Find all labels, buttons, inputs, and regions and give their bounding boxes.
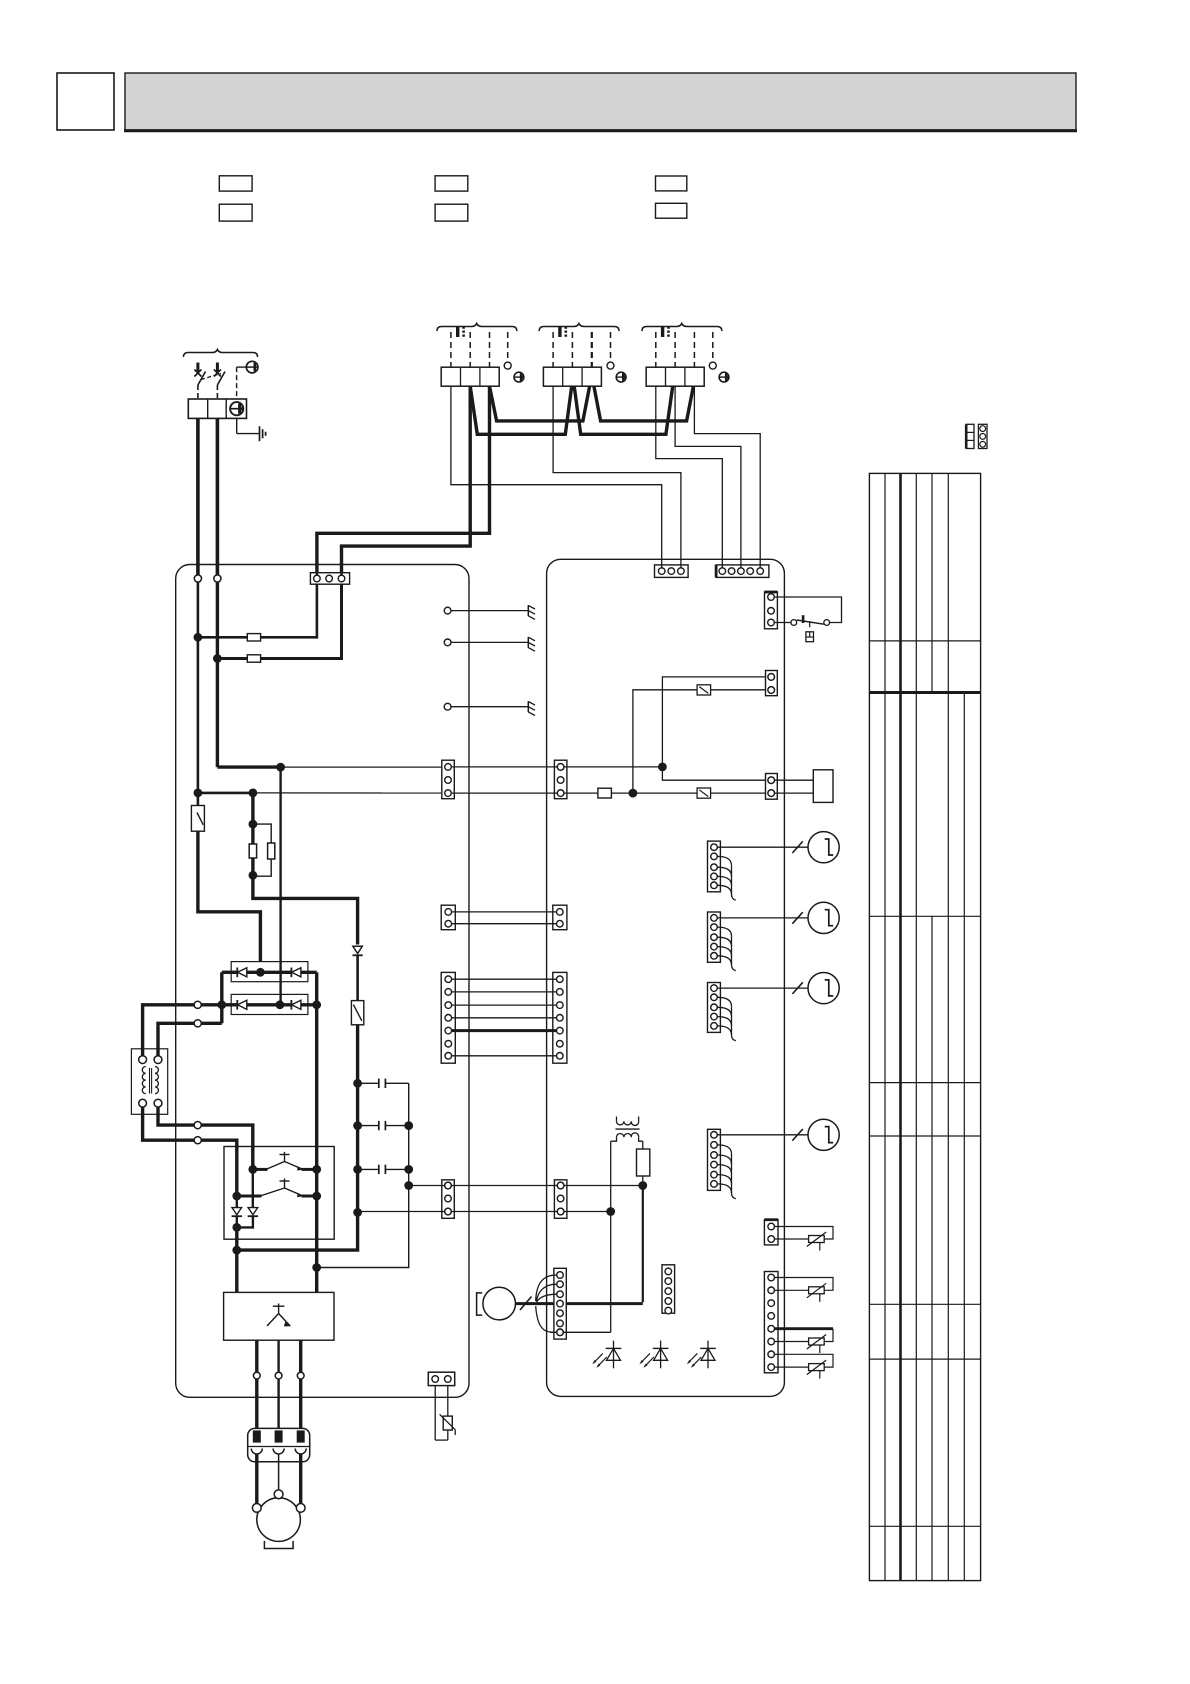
wire vane motor group B bundle xyxy=(717,927,735,971)
fan motor bracket xyxy=(477,1293,483,1315)
power terminal block TB1 xyxy=(188,399,246,418)
compressor socket arc W xyxy=(295,1449,306,1455)
transistor symbol in gate module xyxy=(267,1304,290,1327)
resistor R1 xyxy=(249,844,256,858)
wire L row to node2 xyxy=(198,792,253,795)
indoor unit group 2 brace xyxy=(539,324,619,332)
wire pair3 row3 xyxy=(452,1004,557,1006)
node inverter N xyxy=(312,1263,321,1272)
motor MV vane motor group B xyxy=(808,902,839,933)
motor MV vane motor group A xyxy=(808,832,839,863)
reactor terminal BR xyxy=(154,1099,162,1107)
thermistor TH2 xyxy=(807,1283,826,1302)
power source brace xyxy=(184,350,258,358)
wire power N to board xyxy=(216,418,220,575)
connector pair3 right 7pin xyxy=(553,972,567,1063)
wire thermistor TH3 loop thick feed xyxy=(775,1329,834,1342)
connector CN21S4 xyxy=(766,671,778,696)
node cap2 right xyxy=(404,1121,413,1130)
connector CN-TH1 2pin xyxy=(764,1220,778,1245)
node L-fuse junction xyxy=(194,633,203,642)
wire 21S4 feed vertical xyxy=(662,677,768,780)
node diode common xyxy=(232,1223,241,1232)
node resistor bottom right board xyxy=(638,1181,647,1190)
indoor unit group 1 dashed leads xyxy=(451,332,508,367)
connector vane motor group D xyxy=(708,1129,721,1190)
wire shield 1 xyxy=(451,610,528,612)
connector 63H 3pin xyxy=(765,592,778,629)
node cap2 left xyxy=(353,1121,362,1130)
pin circles over wires pair4 xyxy=(445,1182,564,1215)
group 2 wiring-type marks xyxy=(560,327,566,338)
reactor box xyxy=(131,1049,167,1115)
wire F2 to strip xyxy=(261,584,342,658)
mini connector block left xyxy=(966,424,974,448)
LED D62 xyxy=(639,1341,668,1369)
wire Q2 left to diode Db xyxy=(236,1196,238,1207)
wire relay to CNCH xyxy=(711,792,768,794)
shield pin circle 2 xyxy=(444,639,451,646)
wire bridge right down xyxy=(315,972,318,1005)
fuse F3 on board xyxy=(598,788,612,798)
wire group1 N to strip xyxy=(317,386,490,573)
reactor winding right xyxy=(155,1067,158,1094)
wire pair1 pin1 across xyxy=(451,766,662,768)
wire vane motor group B feed xyxy=(717,917,808,919)
connector pin on W2 xyxy=(194,1020,201,1027)
transistor Q1 xyxy=(253,1152,317,1171)
wire pair4 row1 xyxy=(409,1185,643,1187)
connector pin on W1 xyxy=(194,1001,201,1008)
wire pair1 pin3 across to fuse xyxy=(451,792,598,794)
reactor core lines xyxy=(150,1068,152,1094)
node transformer left xyxy=(606,1207,615,1216)
wire module minus rail xyxy=(235,1227,238,1292)
capacitor C3 xyxy=(358,1165,409,1174)
connector pair2 right 2pin xyxy=(553,905,567,930)
connector CNS 3pin xyxy=(655,565,689,578)
wire group1 S1 to CNS xyxy=(451,386,662,565)
node CN row1 xyxy=(276,763,285,772)
title small box xyxy=(57,73,114,130)
circuit breaker pole 1 xyxy=(194,363,205,400)
thermistor connector CN-TH xyxy=(428,1372,454,1385)
wire R1 bottom xyxy=(251,858,254,875)
legend box 1a xyxy=(219,176,252,191)
resistor R2 xyxy=(268,843,275,859)
thermistor TH outdoor xyxy=(440,1414,456,1435)
wire group3 S3 to CNS2 xyxy=(694,386,760,565)
board inlet pin L xyxy=(194,575,201,582)
wire pair4 row3 xyxy=(358,1211,611,1213)
wire thermistor loop xyxy=(435,1386,448,1441)
title banner bar xyxy=(124,73,1077,131)
wire group2 S1 to CNS xyxy=(553,386,681,565)
capacitor C2 xyxy=(358,1121,409,1130)
mini connector block right with pins xyxy=(978,424,987,448)
connector pin on W3 xyxy=(194,1137,201,1144)
wire link group2-group3 line S3 xyxy=(594,386,694,421)
wire link group1-group2 line S2 xyxy=(470,386,572,434)
motor pin right xyxy=(296,1504,305,1513)
group 2 earth symbol xyxy=(616,372,626,382)
wire reactor TR to bridge W2 xyxy=(158,1023,222,1055)
pin circle phase U xyxy=(253,1372,260,1379)
thermistor TH3 xyxy=(807,1335,826,1354)
wire L below 26C to rectifier xyxy=(198,831,261,972)
group 1 open pin circle xyxy=(504,362,511,369)
connector CNF 7pin xyxy=(554,1268,566,1339)
wire R2 bottom xyxy=(253,859,271,876)
thermistor TH1 xyxy=(807,1232,826,1251)
wire socket U to motor xyxy=(255,1454,258,1504)
wire node2 down to resistors xyxy=(251,793,254,844)
circuit breaker pole 2 xyxy=(214,363,225,400)
pin circle phase V xyxy=(275,1372,282,1379)
wire vane motor group D feed xyxy=(717,1134,808,1136)
plug slash vane motor group B xyxy=(792,912,802,924)
wire N bus vertical xyxy=(216,582,219,767)
node cap3 left xyxy=(353,1165,362,1174)
relay contact 21S4 xyxy=(697,685,711,695)
compressor terminal pin U xyxy=(253,1430,261,1442)
wire N to junction row xyxy=(217,765,280,768)
node Q2 left xyxy=(232,1192,241,1201)
legend box 2b xyxy=(435,204,468,221)
group 1 earth symbol xyxy=(514,372,524,382)
motor pin left xyxy=(252,1504,261,1513)
wire bridge lower row xyxy=(222,1003,317,1006)
node relay feed xyxy=(629,789,638,798)
motor MV vane motor group D xyxy=(808,1119,839,1150)
connector CNS2 5pin xyxy=(716,565,769,578)
shield pin circle 3 xyxy=(444,703,451,710)
compressor motor MC xyxy=(257,1498,301,1542)
wire stubs into CNS pins xyxy=(662,565,761,568)
wire link group1-group2 line S3 xyxy=(490,386,590,421)
compressor terminal pin W xyxy=(297,1430,305,1442)
connector vane motor group B xyxy=(708,912,721,962)
capacitor C1 xyxy=(358,1079,409,1088)
wire node to CH relay xyxy=(633,792,697,794)
wire cap right bus xyxy=(317,1083,409,1267)
diode bridge lower right xyxy=(291,1000,301,1010)
crankcase heater CH box xyxy=(813,770,833,803)
wire pair3 row2 xyxy=(452,991,557,993)
breaker linkage dashed xyxy=(201,374,221,380)
wire module right rail xyxy=(315,1005,318,1293)
legend box 2a xyxy=(435,176,468,191)
connector pair3 left 7pin xyxy=(441,972,455,1063)
motor mount bracket xyxy=(264,1541,293,1549)
chassis symbol 3 xyxy=(528,701,535,715)
wire pair2 row2 xyxy=(452,923,557,925)
wire compressor phase U xyxy=(255,1340,258,1428)
LED D63 xyxy=(687,1341,716,1369)
wire Q1 left to diode Da xyxy=(252,1169,254,1207)
wire vane motor group D bundle xyxy=(717,1145,735,1199)
wire thermistor TH1 loop xyxy=(775,1227,834,1240)
reactor winding left xyxy=(142,1067,145,1094)
wire vane motor group C bundle xyxy=(717,997,735,1040)
wire reactor BL to module W3 xyxy=(143,1107,237,1196)
connector CN-TH2 8pin xyxy=(764,1272,778,1373)
board inlet pin N xyxy=(214,575,221,582)
node N-fuse junction xyxy=(213,654,222,663)
fan line plug slash xyxy=(520,1297,532,1311)
chassis symbol 1 xyxy=(528,605,535,619)
thermistor TH4 xyxy=(807,1360,826,1379)
wire node2 to CNL3a pin3 xyxy=(253,792,448,794)
LED D61 xyxy=(592,1341,621,1369)
shield pin circle 1 xyxy=(444,607,451,614)
node cap3 right xyxy=(404,1165,413,1174)
relay contact 52C xyxy=(351,1001,363,1025)
wire pair3 row5 thick xyxy=(452,1029,557,1032)
wire fuse to node xyxy=(611,792,633,794)
node minus rail xyxy=(232,1246,241,1255)
connector CNCH xyxy=(766,774,778,800)
connector vane motor group A xyxy=(708,841,721,892)
wire thermistor TH2 loop xyxy=(775,1278,834,1291)
connector vane motor group C xyxy=(708,983,721,1033)
wire fan motor feed xyxy=(516,1302,643,1305)
node L row2 xyxy=(194,789,203,798)
motor pin top xyxy=(274,1490,283,1499)
node bridge upper mid xyxy=(256,968,265,977)
ground symbol xyxy=(237,418,266,441)
reactor terminal BL xyxy=(139,1099,147,1107)
indoor unit group 1 brace xyxy=(437,324,517,332)
wire resistor to node xyxy=(642,1176,644,1186)
outdoor power board outline xyxy=(176,565,469,1398)
wire bridge upper row xyxy=(222,971,317,974)
wire node to CNL3a pin1 xyxy=(281,766,448,768)
wire vane motor group A feed xyxy=(717,846,808,848)
group 2 open pin circle xyxy=(607,362,614,369)
wire earth dashed to terminal xyxy=(237,367,247,399)
wire thermistor TH4 loop xyxy=(775,1354,834,1367)
wire socket V to motor xyxy=(278,1454,280,1490)
node resistor top xyxy=(249,820,258,829)
wire reactor V1 xyxy=(220,972,223,1023)
wire shield 3 xyxy=(451,706,528,708)
wire relay to CN21S4 xyxy=(711,689,768,691)
wire shield 2 xyxy=(451,641,528,643)
connector unused 5pin xyxy=(662,1265,675,1314)
node Q1 right xyxy=(312,1165,321,1174)
fan motor MF xyxy=(483,1287,516,1320)
node DC plus out xyxy=(404,1181,413,1190)
motor MV vane motor group C xyxy=(808,973,839,1004)
group 3 terminal block xyxy=(646,367,704,386)
earth symbol at breaker xyxy=(246,361,258,373)
diode bridge upper left xyxy=(237,968,247,978)
group 1 wiring-type marks xyxy=(458,327,464,338)
diode bridge upper right xyxy=(291,968,301,978)
wire vane motor group C feed xyxy=(717,987,808,989)
group 3 wiring-type marks xyxy=(663,327,669,338)
node Q2 right xyxy=(312,1192,321,1201)
node Q1 left xyxy=(248,1165,257,1174)
reactor terminal TL xyxy=(139,1056,147,1064)
wire inverter gate feed xyxy=(279,767,281,1005)
node DC minus out xyxy=(353,1208,362,1217)
wire reactor TL to bridge W1 xyxy=(143,1005,222,1056)
plug slash vane motor group C xyxy=(792,982,802,994)
indoor unit group 3 dashed leads xyxy=(656,332,713,367)
diode D1 xyxy=(353,946,363,955)
power transistor module box xyxy=(224,1147,334,1240)
pin circle over wire CNF pin7 xyxy=(557,1329,564,1336)
rectifier bridge upper xyxy=(231,962,308,982)
connector pair4 left 3pin xyxy=(442,1180,455,1219)
wire group3 S1 to CNS2 xyxy=(656,386,723,565)
wire to fuse F2 xyxy=(217,657,247,660)
wire CNF pin7 to transformer xyxy=(550,1331,611,1333)
compressor terminal pin V xyxy=(275,1430,283,1442)
wire fan feed thick xyxy=(642,1186,644,1303)
node bridge lower mid xyxy=(276,1000,285,1009)
indoor unit group 3 brace xyxy=(642,324,722,332)
node bridge lower right xyxy=(312,1000,321,1009)
wire pair3 row7 xyxy=(452,1055,557,1057)
node resistor bottom xyxy=(249,871,258,880)
earth terminal symbol in TB1 xyxy=(230,402,243,415)
compressor socket arc U xyxy=(251,1449,262,1454)
relay contact 52CH xyxy=(697,788,711,798)
wire L bus vertical xyxy=(197,582,200,805)
pin circles over wires pair1 right xyxy=(557,764,564,797)
pin circle over wire CN21S4 xyxy=(768,674,775,797)
chassis symbol 2 xyxy=(528,637,535,651)
wire minus rail to cap bus xyxy=(237,1212,358,1250)
plug slash vane motor group A xyxy=(792,841,802,853)
connector pair4 right 3pin xyxy=(554,1180,567,1219)
wire diode cathodes join xyxy=(237,1216,253,1227)
symbol table xyxy=(869,473,980,1580)
gate drive module box xyxy=(224,1292,334,1340)
thermal relay 26C box xyxy=(191,806,204,832)
wire group3 S2 to CNS2 xyxy=(675,386,741,565)
connector CNL3a left xyxy=(442,760,455,799)
node pair1 pin1 xyxy=(658,763,667,772)
controller board outline xyxy=(547,559,785,1396)
compressor socket arc V xyxy=(273,1449,284,1455)
board power strip TB2 xyxy=(310,573,349,585)
wire link group2-group3 line S2 xyxy=(574,386,673,434)
wire CNCH to heater xyxy=(775,780,814,793)
resistor R3 xyxy=(637,1149,650,1176)
wire to fuse F1 xyxy=(198,636,247,639)
legend box 3b xyxy=(656,203,687,218)
wire R2 branch xyxy=(253,824,271,843)
group 3 open pin circle xyxy=(709,362,716,369)
group 2 terminal block xyxy=(543,367,601,386)
pin circle phase W xyxy=(297,1372,304,1379)
node reactor V1 junction xyxy=(217,1000,226,1009)
wire pair3 row4 xyxy=(452,1017,557,1019)
diode D3 xyxy=(248,1208,258,1217)
wire to diode column xyxy=(253,875,358,944)
rectifier bridge lower xyxy=(231,994,308,1014)
transistor Q2 xyxy=(237,1179,317,1198)
legend box 1b xyxy=(219,204,252,221)
indoor unit group 2 dashed leads xyxy=(553,332,610,367)
group 3 earth symbol xyxy=(719,372,729,382)
transformer TR01 xyxy=(611,1117,643,1142)
wire pair2 row1 xyxy=(452,911,557,913)
connector pin on W4 xyxy=(194,1122,201,1129)
compressor terminal box xyxy=(248,1428,310,1461)
node cap1 left xyxy=(353,1079,362,1088)
node R row2 xyxy=(249,789,258,798)
wire socket W to motor xyxy=(299,1454,302,1504)
connector pair2 left 2pin xyxy=(441,905,455,930)
wire transformer left lead xyxy=(610,1141,612,1332)
wire contact to cap bus xyxy=(356,1025,359,1213)
fuse F2 xyxy=(247,655,260,662)
wire D1 to relay contact xyxy=(356,955,359,1000)
pressure switch 63H xyxy=(791,615,830,627)
diode D2 xyxy=(232,1208,242,1217)
plug slash vane motor group D xyxy=(792,1129,802,1141)
connector CNL3a right xyxy=(554,760,567,799)
wire pair3 row1 xyxy=(452,978,557,980)
wire compressor phase W xyxy=(299,1340,302,1428)
wire node up to 21S4 relay xyxy=(633,690,697,793)
wire stubs into TB2 pins xyxy=(317,573,342,576)
legend box 3a xyxy=(656,176,687,191)
group 1 terminal block xyxy=(441,367,499,386)
wire vane motor group A bundle xyxy=(717,856,735,900)
fuse F1 xyxy=(247,634,260,641)
diode bridge lower left xyxy=(237,1000,247,1010)
wire F1 to strip xyxy=(261,584,317,637)
wire reactor BR to module W4 xyxy=(158,1107,253,1169)
wire compressor phase V xyxy=(277,1340,279,1428)
wire transformer right lead xyxy=(642,1141,644,1149)
pressure switch actuator box xyxy=(806,632,814,642)
reactor terminal TR xyxy=(154,1056,162,1064)
wire CNF bundle arcs xyxy=(536,1275,557,1332)
wire power L to board xyxy=(196,418,200,575)
wire group1 L to strip xyxy=(342,386,471,573)
wire 63H loop xyxy=(774,597,841,623)
